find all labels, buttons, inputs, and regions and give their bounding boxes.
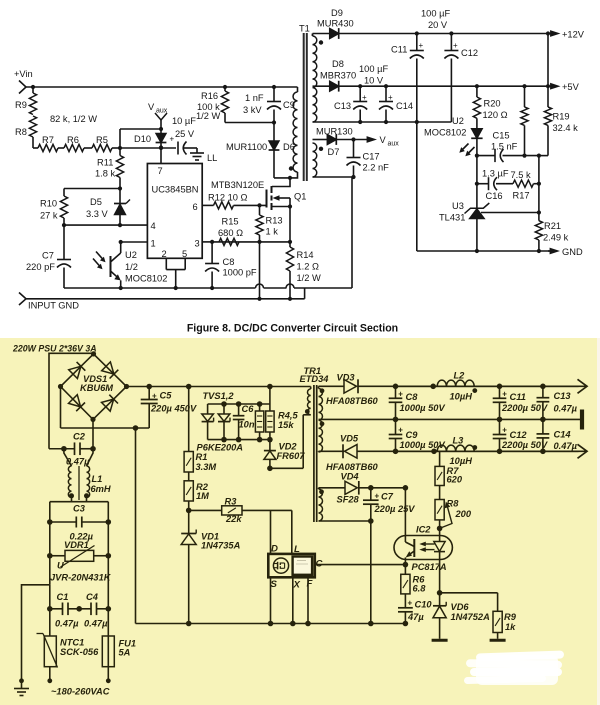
svg-text:2200µ 50V: 2200µ 50V: [501, 403, 548, 413]
svg-text:1000µ 50V: 1000µ 50V: [400, 403, 446, 413]
svg-text:R15: R15: [222, 217, 239, 227]
svg-text:1/2 W: 1/2 W: [297, 273, 322, 283]
top output rail: [393, 384, 579, 390]
UC3845BN box U1: [147, 164, 202, 259]
svg-text:SCK-056: SCK-056: [60, 647, 99, 657]
wire R16 bottom row: [225, 120, 276, 124]
resistor R21: [535, 213, 568, 252]
pin X wire: [293, 577, 301, 623]
svg-text:+: +: [419, 41, 424, 50]
component ground rail upper: [64, 284, 352, 290]
svg-text:VD3: VD3: [337, 373, 356, 383]
svg-text:Figure 8. DC/DC Converter Circ: Figure 8. DC/DC Converter Circuit Sectio…: [187, 323, 398, 335]
svg-text:15k: 15k: [278, 420, 294, 430]
diode D10: [134, 129, 166, 148]
tvs TVS2: [218, 404, 230, 440]
svg-text:R5: R5: [96, 135, 108, 145]
resistor R4: [255, 404, 263, 440]
capacitor C11: [391, 31, 424, 122]
snubber cluster top row: [208, 387, 270, 407]
svg-text:C5: C5: [160, 391, 173, 401]
pin 7: [158, 145, 164, 176]
svg-text:1.3 µF: 1.3 µF: [482, 169, 509, 179]
resistor R8: [15, 116, 37, 148]
svg-text:+: +: [375, 492, 380, 501]
label P6KE200A: [197, 443, 244, 453]
choke output bar: [50, 498, 109, 502]
transformer T1 core: [304, 33, 307, 181]
svg-text:220µ 25V: 220µ 25V: [374, 504, 416, 514]
capacitor C1: [50, 592, 82, 629]
svg-text:R3: R3: [225, 497, 238, 507]
svg-text:C14: C14: [554, 430, 572, 440]
svg-text:20 V: 20 V: [428, 20, 448, 30]
svg-text:1k: 1k: [505, 622, 516, 632]
capacitor C12: [444, 31, 478, 122]
pin 1 row: [119, 239, 156, 249]
earth branch wire: [19, 585, 50, 683]
resistor R1: [184, 387, 216, 473]
choke L1 core: [78, 466, 80, 500]
svg-text:S: S: [271, 579, 278, 590]
svg-text:22k: 22k: [225, 514, 242, 524]
svg-text:2200µ 50V: 2200µ 50V: [501, 440, 548, 450]
svg-text:C17: C17: [363, 152, 380, 162]
svg-text:C7: C7: [381, 492, 394, 502]
svg-text:MUR130: MUR130: [316, 127, 353, 137]
svg-text:R8: R8: [15, 127, 27, 137]
TR1 primary winding: [303, 387, 311, 415]
pins 2 and 5 ground: [162, 249, 188, 288]
wire node up to D10 feed row: [120, 127, 163, 148]
pin 3 row: [195, 239, 213, 249]
svg-text:V: V: [380, 135, 387, 145]
svg-text:R1: R1: [196, 452, 208, 462]
labels U2 1/2 MOC8102: [125, 250, 167, 284]
white smudge watermark: [464, 650, 564, 685]
label 180-260VAC: [51, 687, 110, 697]
input terminal +Vin: [14, 69, 33, 94]
labels L1 6mH: [91, 474, 111, 494]
R9 ground bar: [490, 639, 506, 642]
-V output arrow: [396, 444, 588, 458]
transformer TR1 labels: [300, 366, 330, 384]
wire R6-R5: [84, 147, 92, 149]
svg-text:MUR1100: MUR1100: [226, 142, 267, 152]
svg-text:JVR-20N431K: JVR-20N431K: [50, 573, 112, 583]
svg-text:5A: 5A: [119, 648, 131, 658]
bridge diode top-left: [69, 366, 81, 378]
svg-text:R12 10 Ω: R12 10 Ω: [208, 193, 248, 203]
AC2 from bridge bottom: [92, 419, 94, 448]
capacitor C16: [482, 169, 509, 202]
capacitor C7 220pF: [26, 251, 71, 289]
svg-text:U: U: [57, 561, 64, 571]
svg-text:R8: R8: [447, 499, 460, 509]
resistor R7b: [435, 451, 463, 485]
resistor R11: [95, 148, 124, 191]
svg-text:R4,5: R4,5: [278, 411, 298, 421]
svg-text:1/2: 1/2: [125, 262, 138, 272]
svg-text:VDR1: VDR1: [64, 540, 89, 550]
svg-text:10µH: 10µH: [450, 392, 473, 402]
U2 LED light arrows: [459, 144, 474, 157]
capacitor C5: [141, 387, 197, 429]
svg-text:47µ: 47µ: [407, 612, 424, 622]
IC2 light arrows: [419, 542, 434, 552]
svg-text:MTB3N120E: MTB3N120E: [211, 180, 264, 190]
minus long vertical: [135, 428, 137, 624]
diode D6 MUR1100: [226, 123, 295, 178]
svg-text:3: 3: [195, 239, 200, 249]
L2 dot: [472, 388, 477, 393]
capacitor C13: [334, 84, 367, 122]
capacitor C11b: [493, 386, 548, 419]
svg-text:1M: 1M: [196, 491, 209, 501]
svg-text:C13: C13: [334, 101, 351, 111]
svg-text:D5: D5: [90, 197, 102, 207]
wire 148 row to cap: [120, 146, 176, 150]
diode VD4 SF28: [319, 472, 406, 505]
svg-text:ETD34: ETD34: [300, 374, 330, 384]
optocoupler U2 LED: [424, 116, 483, 156]
zener VD6 1N4752A: [433, 602, 490, 639]
switcher inner control block: [293, 557, 313, 575]
transformer T1 label: [299, 24, 310, 34]
svg-text:R9: R9: [15, 100, 27, 110]
svg-text:SF28: SF28: [337, 495, 360, 505]
svg-text:C12: C12: [461, 48, 478, 58]
inductor L2: [437, 371, 474, 402]
+12V output arrow: [546, 30, 585, 40]
IC2 phototransistor: [405, 536, 414, 560]
IC2 collector wire: [403, 485, 409, 536]
TL431 feedback row: [481, 210, 541, 214]
drain node: [267, 415, 303, 471]
TR1 secondary winding: [319, 386, 323, 452]
resistor R9: [15, 87, 37, 115]
C16 R17 row: [475, 182, 541, 186]
aux winding phasing dot: [319, 147, 323, 151]
wire pin3 row right: [210, 240, 292, 244]
svg-text:0.47µ: 0.47µ: [84, 619, 108, 629]
svg-text:3.3M: 3.3M: [196, 462, 217, 472]
svg-text:2.2 nF: 2.2 nF: [363, 163, 390, 173]
svg-text:200: 200: [455, 509, 472, 519]
svg-text:1.5 nF: 1.5 nF: [491, 142, 518, 152]
svg-text:LL: LL: [207, 153, 217, 163]
wire R11 node to R10: [64, 188, 120, 190]
0V terminal bar: [580, 410, 584, 430]
svg-text:620: 620: [447, 475, 463, 485]
svg-text:V: V: [148, 102, 155, 112]
svg-text:X: X: [293, 580, 301, 591]
svg-text:10 V: 10 V: [364, 76, 384, 86]
svg-text:2.49 k: 2.49 k: [543, 233, 569, 243]
svg-text:UC3845BN: UC3845BN: [152, 185, 199, 195]
svg-text:+Vin: +Vin: [14, 69, 33, 79]
svg-text:MOC8102: MOC8102: [424, 128, 466, 138]
resistor R7: [38, 135, 58, 152]
right column below choke: [106, 502, 112, 609]
svg-text:C12: C12: [510, 430, 528, 440]
L3 dot: [472, 445, 477, 450]
R2 bottom node: [186, 501, 192, 534]
capacitor C14b: [537, 419, 578, 451]
svg-text:C14: C14: [396, 101, 413, 111]
capacitor C8 1000pF: [205, 242, 257, 288]
+5V output arrow: [546, 82, 580, 92]
TR1 primary dot: [305, 409, 310, 414]
svg-text:R16: R16: [201, 91, 218, 101]
mosfet Q1: [267, 186, 307, 242]
svg-text:+12V: +12V: [562, 30, 585, 40]
diode D7 MUR130 aux row: [313, 127, 356, 158]
svg-text:aux: aux: [388, 141, 400, 148]
AC line1 top wire: [49, 353, 94, 448]
svg-text:U2: U2: [125, 250, 137, 260]
svg-text:L: L: [294, 544, 300, 555]
resistor R2: [184, 472, 209, 501]
capacitor C9: [243, 85, 295, 123]
svg-text:C16: C16: [486, 191, 503, 201]
thermistor NTC1: [37, 609, 100, 681]
IC2 emitter node: [403, 560, 409, 575]
svg-text:C8: C8: [406, 392, 419, 402]
svg-text:100 µF: 100 µF: [359, 64, 388, 74]
resistor R16: [196, 85, 229, 123]
switcher inner circle mosfet: [273, 558, 288, 573]
svg-text:6.8: 6.8: [413, 584, 427, 594]
svg-text:NTC1: NTC1: [60, 638, 84, 648]
wire LED node down: [476, 156, 478, 184]
choke L1 polarity dots: [69, 493, 89, 498]
svg-text:C1: C1: [57, 592, 69, 602]
svg-text:+: +: [398, 390, 403, 399]
svg-text:C15: C15: [493, 131, 510, 141]
svg-text:D: D: [271, 544, 278, 555]
svg-text:C4: C4: [86, 592, 99, 602]
labels 100uF 10V: [359, 64, 388, 86]
optocoupler U2 transistor: [111, 242, 121, 288]
primary phasing dot: [289, 166, 293, 170]
svg-text:2: 2: [162, 249, 167, 259]
label Vaux: [148, 102, 168, 115]
pin 6 row: [193, 202, 214, 212]
wire pin4 col down to C7: [63, 225, 65, 259]
svg-text:C13: C13: [554, 391, 572, 401]
left column below choke: [47, 502, 53, 585]
svg-text:10 µF: 10 µF: [172, 116, 196, 126]
svg-text:0.47µ: 0.47µ: [554, 441, 578, 451]
svg-text:MUR430: MUR430: [317, 19, 354, 29]
snubber cluster bottom row: [208, 437, 273, 443]
svg-text:100 µF: 100 µF: [421, 9, 450, 19]
transformer T1 primary winding: [274, 87, 298, 178]
wire bottom of R8 to R7 row: [33, 147, 38, 149]
choke L1 right winding: [87, 466, 90, 497]
capacitor C2 row: [49, 432, 96, 467]
svg-text:TL431: TL431: [439, 213, 465, 223]
pin S wire: [271, 577, 278, 623]
primary ground rail: [136, 621, 409, 627]
resistor R3: [189, 497, 292, 525]
svg-text:0.47µ: 0.47µ: [554, 404, 578, 414]
svg-text:TVS1,2: TVS1,2: [203, 391, 235, 401]
Vaux arrow top: [155, 113, 167, 129]
svg-text:U3: U3: [452, 201, 464, 211]
svg-text:+: +: [398, 426, 403, 435]
IC2 LED: [434, 536, 445, 560]
TR1 secondary dots: [320, 388, 325, 426]
wire drain to primary: [272, 176, 292, 187]
svg-text:D10: D10: [134, 134, 151, 144]
right edge light strip: [597, 338, 600, 705]
VD6 ground bar: [432, 639, 448, 642]
svg-text:R6: R6: [67, 135, 79, 145]
fuse FU1: [102, 609, 136, 681]
choke L1 left winding: [68, 466, 71, 497]
svg-text:VD6: VD6: [451, 602, 470, 612]
bridge diode bottom-left: [69, 395, 81, 407]
svg-text:R20: R20: [484, 99, 501, 109]
svg-text:C6: C6: [242, 404, 255, 414]
labels VDS1 KBU6M: [80, 374, 113, 393]
bottom output rail: [393, 449, 579, 455]
GND rail right: [417, 247, 583, 257]
svg-text:C7: C7: [42, 251, 54, 261]
aux return wire: [319, 518, 374, 524]
svg-text:5: 5: [182, 249, 187, 259]
svg-text:R13: R13: [266, 216, 283, 226]
resistor R5: [92, 135, 112, 152]
svg-text:L2: L2: [454, 371, 466, 381]
svg-text:C11: C11: [391, 45, 407, 55]
TR1 aux winding: [319, 488, 323, 521]
resistor R12: [208, 193, 267, 209]
svg-text:P6KE200A: P6KE200A: [197, 443, 244, 453]
svg-text:6mH: 6mH: [91, 484, 111, 494]
svg-text:C11: C11: [510, 392, 526, 402]
diode VD2 FR607: [264, 440, 305, 469]
AC terminal dots: [47, 678, 110, 683]
svg-text:HFA08TB60: HFA08TB60: [326, 396, 378, 406]
svg-text:7: 7: [158, 166, 163, 176]
plus rail from bridge: [127, 384, 311, 390]
wire +Vin rail: [26, 85, 298, 89]
svg-text:R10: R10: [40, 199, 57, 209]
TR1 aux dot: [319, 489, 324, 494]
svg-text:+: +: [502, 426, 507, 435]
resistor R5b: [266, 404, 274, 440]
svg-text:R17: R17: [513, 191, 530, 201]
svg-text:+: +: [152, 392, 157, 401]
yellow background: [0, 338, 600, 705]
svg-text:4: 4: [151, 221, 156, 231]
resistor R18 unlabeled: [521, 84, 528, 156]
labels R4,5 15k: [278, 411, 298, 431]
resistor R15: [218, 217, 243, 246]
middle 0V rail: [319, 417, 583, 423]
labels 100uF 20V: [421, 9, 450, 31]
svg-text:+: +: [502, 390, 507, 399]
svg-text:C9: C9: [406, 430, 419, 440]
svg-text:0.47µ: 0.47µ: [55, 619, 79, 629]
svg-text:VD4: VD4: [341, 472, 360, 482]
choke L1 right funnel: [87, 449, 94, 466]
+12V feed to R19: [547, 34, 549, 87]
shunt regulator U3 TL431: [439, 184, 489, 251]
pin D wire: [271, 510, 279, 554]
svg-text:+: +: [388, 93, 393, 102]
capacitor C12b: [493, 419, 548, 451]
switcher C pin wire: [315, 564, 406, 566]
svg-text:C10: C10: [415, 600, 433, 610]
zener VD1 1N4735A: [181, 530, 240, 624]
ground LL: [190, 148, 217, 163]
capacitor C17: [347, 140, 390, 180]
svg-text:R19: R19: [553, 112, 570, 122]
diode D9 MUR430 row: [313, 8, 550, 39]
svg-text:U2: U2: [452, 116, 464, 126]
svg-text:27 k: 27 k: [40, 211, 58, 221]
wire R17 node down: [538, 156, 540, 213]
svg-text:120 Ω: 120 Ω: [483, 110, 508, 120]
svg-text:+: +: [408, 599, 413, 608]
IC2 LED lower wire: [437, 560, 443, 606]
svg-text:L3: L3: [453, 436, 465, 446]
label TVS1,2: [203, 391, 235, 401]
resistor R8 trimmer: [435, 486, 472, 536]
svg-text:D9: D9: [331, 8, 343, 18]
capacitor C3 row: [50, 504, 109, 542]
aux winding T1: [313, 143, 354, 177]
capacitor C9b: [389, 419, 446, 451]
svg-text:HFA08TB60: HFA08TB60: [326, 462, 378, 472]
bridge diode top-right: [102, 362, 114, 374]
tvs TVS1: [202, 404, 214, 440]
svg-text:+: +: [170, 135, 175, 144]
svg-text:1000 pF: 1000 pF: [223, 268, 257, 278]
varistor VDR1: [50, 540, 109, 571]
capacitor C10b: [398, 594, 432, 624]
optocoupler IC2 body: [394, 525, 452, 560]
wire R7-R6: [58, 147, 64, 149]
svg-text:1N4735A: 1N4735A: [201, 541, 241, 551]
input gnd rail: [19, 288, 305, 311]
svg-text:aux: aux: [156, 108, 168, 115]
svg-text:1.2 Ω: 1.2 Ω: [297, 262, 320, 272]
Vaux output arrow: [354, 135, 400, 148]
svg-text:6: 6: [193, 202, 198, 212]
svg-text:1: 1: [151, 239, 156, 249]
U2 light arrows: [93, 252, 106, 270]
transformer T1 secondary winding: [313, 34, 317, 122]
svg-text:1/2 W: 1/2 W: [196, 111, 221, 121]
C15 row: [475, 154, 541, 158]
svg-text:220W PSU 2*36V 3A: 220W PSU 2*36V 3A: [12, 344, 97, 354]
capacitor C7b: [363, 488, 415, 624]
svg-text:7.5 k: 7.5 k: [511, 170, 532, 180]
svg-text:10µH: 10µH: [450, 456, 473, 466]
label JVR-20N431K: [50, 573, 112, 583]
capacitor C4: [79, 592, 111, 629]
bridge vertex dots: [58, 351, 129, 422]
wire to R9: [440, 592, 498, 594]
svg-text:KBU6M: KBU6M: [80, 383, 113, 393]
capacitor C13b: [537, 386, 578, 419]
svg-text:D8: D8: [332, 59, 344, 69]
